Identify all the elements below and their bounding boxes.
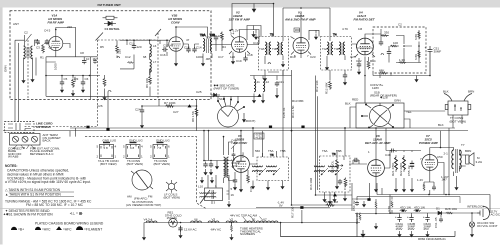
svg-text:C15: C15 — [163, 44, 169, 48]
ground V2 cathode — [231, 58, 235, 64]
svg-text:(FRONT): (FRONT) — [243, 119, 255, 123]
coil arrows T6am — [321, 168, 342, 175]
ground T7 — [454, 184, 458, 190]
resistor R21 — [395, 155, 398, 172]
svg-text:-64V AC: -64V AC — [210, 228, 222, 232]
svg-text:=AVC: =AVC — [42, 227, 51, 231]
volume control dashed box — [337, 150, 344, 183]
svg-text:300: 300 — [295, 28, 300, 32]
svg-text:47: 47 — [170, 44, 174, 48]
svg-text:FM RF AMP: FM RF AMP — [48, 21, 65, 25]
svg-text:FM = 88 MC TO 108 MC. IF =: FM = 88 MC TO 108 MC. IF = 10.7 MC — [26, 203, 84, 207]
resistor R15 — [344, 178, 347, 187]
line cord antenna parts — [8, 123, 31, 130]
svg-text:120: 120 — [230, 55, 235, 59]
svg-text:S1C: S1C — [219, 97, 226, 101]
svg-text:(BOT VIEW): (BOT VIEW) — [127, 162, 144, 166]
svg-text:68: 68 — [143, 55, 147, 59]
svg-text:(BOT VIEW): (BOT VIEW) — [100, 162, 117, 166]
resistor R24b — [375, 201, 377, 208]
filament V5 — [244, 221, 255, 223]
wire long verticals middle — [253, 70, 345, 205]
svg-text:R882 19D416286-01: R882 19D416286-01 — [418, 237, 446, 241]
svg-text:POWER AMP: POWER AMP — [419, 141, 438, 145]
svg-text:GND LUG: GND LUG — [103, 139, 117, 143]
ground L11 — [252, 97, 256, 103]
resistor R1.3K — [399, 61, 406, 63]
ground L10 area b — [210, 177, 214, 183]
capacitor C48 coupling — [390, 149, 395, 153]
svg-text:INTERLOCK: INTERLOCK — [467, 205, 484, 209]
FM tuner unit dashed box — [10, 11, 211, 100]
junction dots bus — [252, 127, 254, 129]
interlock plug — [477, 207, 490, 220]
svg-text:120: 120 — [218, 34, 223, 38]
ground grid box — [362, 201, 366, 207]
svg-text:RED: RED — [352, 98, 359, 102]
transformer T4 FM IF dashed box — [321, 33, 352, 71]
svg-text:V2: V2 — [230, 218, 234, 222]
svg-text:✦✱S1 SHOWN IN FM POSITION: ✦✱S1 SHOWN IN FM POSITION — [3, 213, 53, 217]
ground T3 sec — [281, 61, 285, 67]
wire S1B out — [350, 107, 445, 128]
svg-text:FM RATIO DET: FM RATIO DET — [354, 18, 376, 22]
svg-text:C25: C25 — [196, 90, 202, 94]
square marker fil — [300, 206, 303, 209]
capacitor C3 — [35, 39, 39, 45]
capacitor C62A — [397, 215, 401, 222]
svg-text:0V: 0V — [279, 204, 283, 208]
ground R25 — [229, 234, 233, 240]
svg-text:68K: 68K — [379, 69, 384, 73]
svg-text:(REAR OF WAFER): (REAR OF WAFER) — [370, 94, 397, 98]
AFC triangle marker mid — [333, 193, 337, 196]
capacitor C47 — [353, 158, 359, 162]
wire bus to ant box stubs — [70, 128, 76, 137]
tube V5 — [233, 156, 250, 173]
svg-text:ANT: ANT — [13, 22, 19, 26]
svg-text:T4B: T4B — [334, 47, 340, 51]
svg-text:FM: FM — [148, 195, 153, 199]
svg-text:25V: 25V — [424, 227, 429, 231]
wire T3 T4 grounds — [265, 56, 345, 81]
resistor R18 — [379, 72, 387, 74]
resistor R12 — [329, 81, 332, 90]
svg-text:C27: C27 — [173, 110, 179, 114]
svg-text:FM TUNER UNIT: FM TUNER UNIT — [98, 3, 121, 7]
ground T5am mid — [266, 184, 270, 190]
svg-text:T3A: T3A — [259, 47, 265, 51]
svg-text:4.7K: 4.7K — [342, 27, 348, 31]
switch S2 on-off — [469, 222, 474, 231]
ground mid — [215, 163, 219, 169]
capacitor C62C — [425, 215, 429, 222]
svg-text:C12: C12 — [125, 55, 131, 59]
svg-text:16: 16 — [231, 193, 235, 197]
legend symbols — [11, 226, 83, 230]
LF coils bottom view symbol — [166, 180, 177, 193]
ground T5am right — [280, 183, 284, 189]
ground S1C — [242, 116, 246, 122]
svg-text:C61 .05: C61 .05 — [434, 217, 438, 228]
svg-text:C46: C46 — [343, 184, 347, 190]
svg-text:R16 10M: R16 10M — [309, 177, 313, 190]
svg-text:NOTES:: NOTES: — [5, 164, 17, 168]
svg-text:L7: L7 — [153, 60, 157, 64]
svg-text:T2A: T2A — [200, 33, 206, 37]
resistor R14 — [367, 60, 370, 69]
svg-text:C16: C16 — [160, 53, 166, 57]
ground big left — [360, 230, 365, 238]
scan gray band top — [0, 0, 500, 8]
wire V4 ratio det — [352, 34, 381, 103]
svg-text:R22 220K: R22 220K — [399, 163, 403, 176]
voltage box V3 — [294, 28, 300, 32]
svg-text:T3B: T3B — [272, 47, 278, 51]
svg-text:V3: V3 — [212, 218, 216, 222]
svg-text:GND LUG: GND LUG — [156, 139, 170, 143]
AFC triangle marker — [188, 104, 192, 107]
svg-text:R7 100K: R7 100K — [164, 101, 176, 105]
B+ square marker left — [106, 128, 109, 131]
svg-text:BACK: BACK — [43, 139, 51, 143]
ground T1 right — [30, 76, 34, 82]
svg-text:+: + — [407, 215, 409, 219]
S1B switch box — [356, 103, 404, 128]
capacitor C11 — [132, 44, 136, 50]
filament string wire — [144, 205, 360, 234]
svg-text:C55 .02: C55 .02 — [407, 165, 411, 176]
svg-text:120: 120 — [137, 45, 142, 49]
svg-text:NUMBERS: NUMBERS — [240, 232, 255, 236]
V7 grid cluster wires — [352, 183, 399, 214]
svg-text:AM: AM — [127, 195, 132, 199]
svg-text:a VTVM ±10%,no signal input wi: a VTVM ±10%,no signal input with 115V 60… — [5, 180, 91, 184]
filament V6 — [191, 221, 202, 223]
resistor R19 volume — [336, 158, 339, 170]
coil L6 — [150, 44, 152, 57]
svg-text:T5A: T5A — [268, 149, 274, 153]
gang dashed line C2B — [25, 40, 98, 134]
coil L7 — [150, 60, 152, 73]
svg-text:T6B: T6B — [336, 149, 342, 153]
ground C5 — [60, 87, 64, 93]
transformer T3 FM IF dashed box — [259, 33, 289, 71]
svg-text:R13 68K: R13 68K — [292, 99, 304, 103]
ground R21 — [394, 186, 398, 192]
svg-text:2-1: 2-1 — [444, 152, 449, 156]
connector T6b — [153, 143, 167, 159]
wire B+ top feed — [232, 4, 330, 43]
svg-text:C4 5: C4 5 — [44, 29, 51, 33]
transformer T6 AM IF dashed box — [314, 152, 350, 192]
resistor R7 100K — [165, 105, 174, 108]
svg-text:R16 2.2M: R16 2.2M — [325, 200, 339, 204]
svg-text:C50: C50 — [437, 155, 443, 159]
connector T6a — [126, 143, 140, 159]
ground R5 — [102, 94, 106, 100]
rotary switch S1A — [131, 170, 153, 190]
wire R5 — [104, 75, 106, 94]
svg-text:C19: C19 — [253, 41, 259, 45]
ground V5 — [239, 186, 243, 192]
wire V1B grid line — [120, 40, 169, 75]
svg-text:V4 3-4: V4 3-4 — [144, 218, 153, 222]
svg-text:6.8K: 6.8K — [414, 34, 418, 40]
ground T5am left — [251, 183, 255, 189]
svg-text:C5: C5 — [64, 77, 68, 81]
svg-text:C8: C8 — [80, 51, 84, 55]
resistor R1 — [42, 44, 45, 53]
printed board dashed outline — [85, 137, 206, 209]
svg-text:47Ω 1W: 47Ω 1W — [414, 206, 425, 210]
svg-text:220: 220 — [118, 49, 122, 54]
svg-text:R28 10Ω: R28 10Ω — [445, 207, 458, 211]
svg-text:4.7K: 4.7K — [387, 206, 391, 212]
capacitor C8 — [82, 59, 86, 65]
ground C42 — [209, 169, 213, 175]
svg-text:L10: L10 — [198, 185, 203, 189]
capacitor C45 — [338, 179, 342, 185]
svg-text:R14 1.5K: R14 1.5K — [291, 105, 295, 118]
capacitor C30 — [233, 178, 237, 184]
wire B- return rail — [281, 214, 456, 238]
transformer T2 osc coil — [200, 33, 215, 53]
trimmer C40 — [232, 152, 236, 157]
resistor R28 — [446, 212, 453, 214]
svg-text:560: 560 — [255, 149, 260, 153]
svg-text:1M: 1M — [93, 57, 98, 61]
ground V6 cath — [374, 186, 378, 192]
ground T2 — [201, 60, 205, 66]
ground C20 — [343, 79, 347, 85]
svg-text:BRN: BRN — [468, 90, 474, 94]
filament V2 — [226, 221, 237, 223]
diode AFC — [211, 93, 220, 97]
svg-text:▲ TAKEN WITH S1 IN FM POSITIO: ▲ TAKEN WITH S1 IN FM POSITION — [5, 193, 61, 197]
svg-text:R14: R14 — [370, 59, 376, 63]
svg-text:L11: L11 — [255, 80, 260, 84]
ground T3 — [263, 75, 267, 81]
capacitor C41 — [203, 162, 207, 168]
capacitor C18 — [243, 56, 247, 62]
svg-text:C2: C2 — [24, 31, 28, 35]
ground afc — [414, 76, 418, 82]
svg-text:T4: T4 — [333, 33, 337, 37]
svg-text:12.6V AC: 12.6V AC — [184, 228, 198, 232]
B+ square markers on bus — [269, 126, 272, 129]
tube V2 — [232, 37, 248, 53]
svg-text:C23: C23 — [310, 55, 316, 59]
AVC triangle marker — [258, 94, 262, 97]
svg-text:C3: C3 — [36, 46, 40, 50]
wire V5 input — [224, 131, 258, 186]
line cord antenna dashed box — [5, 122, 35, 133]
loop antenna coil L4 — [224, 157, 229, 178]
svg-text:V1: V1 — [252, 218, 256, 222]
ground C62C — [425, 231, 429, 237]
ground R3 — [71, 90, 75, 96]
svg-text:AC-DC: AC-DC — [491, 213, 500, 217]
rotary switch S1C — [218, 99, 245, 127]
svg-text:R6 10K: R6 10K — [145, 78, 149, 88]
capacitor C16 — [214, 35, 218, 41]
svg-text:BETWEEN B & C: BETWEEN B & C — [30, 152, 54, 156]
svg-text:330: 330 — [384, 31, 389, 35]
svg-text:WI A&B: WI A&B — [8, 155, 18, 159]
speaker M — [466, 153, 474, 166]
svg-text:R4: R4 — [222, 45, 226, 49]
svg-text:10: 10 — [86, 57, 90, 61]
svg-text:-4.3V: -4.3V — [255, 135, 262, 139]
svg-text:1000: 1000 — [54, 63, 58, 70]
svg-text:C24: C24 — [135, 108, 141, 112]
voltage box V5 — [254, 133, 264, 139]
B+ arrow marker top — [252, 4, 256, 13]
wire S1C stems — [218, 96, 238, 102]
svg-text:T5: T5 — [270, 153, 274, 157]
wire V7 cathode screen — [424, 163, 444, 195]
svg-text:C38: C38 — [249, 186, 253, 192]
svg-text:C1 DETAIL: C1 DETAIL — [105, 27, 120, 31]
svg-text:128V: 128V — [372, 86, 379, 90]
svg-text:C26: C26 — [97, 104, 103, 108]
svg-text:(BOT VIEW): (BOT VIEW) — [154, 162, 171, 166]
resistor R24 — [423, 184, 425, 191]
svg-text:R12 68K: R12 68K — [325, 82, 329, 94]
svg-text:47: 47 — [186, 38, 190, 42]
capacitor C51 — [428, 46, 433, 76]
AFC network dashed box — [373, 27, 426, 73]
junction dots am ant — [203, 130, 212, 162]
svg-text:⊲⊥ = ▦-: ⊲⊥ = ▦- — [70, 212, 84, 216]
ground C60 — [178, 232, 182, 238]
transformer T3 AM IF dashed box — [252, 153, 288, 181]
power rail wire — [390, 195, 477, 222]
capacitor C14 — [192, 47, 196, 53]
svg-text:=B+: =B+ — [18, 227, 24, 231]
ground C22 — [357, 69, 361, 75]
svg-text:T5B: T5B — [280, 149, 286, 153]
svg-text:ANTENNA: ANTENNA — [36, 125, 51, 129]
capacitor C4 — [45, 39, 49, 45]
svg-text:1M: 1M — [358, 27, 363, 31]
ground C24 — [140, 122, 144, 128]
resistor R6.8K bot — [418, 50, 421, 58]
black square marker power a — [402, 210, 405, 212]
tube V1B — [169, 37, 183, 51]
resistor R10 — [221, 32, 224, 41]
coil L12 — [263, 79, 265, 92]
transformer T7 output — [451, 148, 466, 185]
ground T1 left — [21, 77, 25, 83]
ground R22 — [402, 186, 406, 192]
svg-text:10K: 10K — [206, 36, 211, 40]
scan fold line — [0, 208, 500, 210]
resistor R23 — [359, 213, 361, 220]
capacitor C24 — [140, 108, 144, 114]
svg-text:C19: C19 — [236, 59, 242, 63]
svg-text:YEL: YEL — [406, 110, 412, 114]
svg-text:47Ω 1W: 47Ω 1W — [400, 206, 411, 210]
svg-text:R12 33K: R12 33K — [315, 80, 319, 92]
ground C21 — [275, 92, 279, 98]
svg-text:T4A: T4A — [322, 47, 328, 51]
resistor R2 — [127, 62, 134, 64]
svg-text:=AFC: =AFC — [63, 227, 72, 231]
junction dots misc — [45, 3, 473, 224]
capacitor C15 — [162, 47, 168, 51]
svg-text:C14: C14 — [196, 46, 202, 50]
svg-text:C2: C2 — [398, 23, 402, 27]
svg-text:L6: L6 — [153, 44, 157, 48]
resistor R25b — [391, 200, 393, 207]
wire conv B+ — [373, 73, 430, 76]
C1 detail diode symbol — [104, 21, 116, 25]
ground L10 area a — [200, 177, 204, 183]
svg-text:R3: R3 — [75, 77, 79, 81]
resistor R100 — [390, 45, 397, 47]
capacitor C310 — [387, 50, 391, 56]
wire V3 pin stubs — [229, 36, 375, 59]
capacitor C26 — [379, 40, 383, 46]
svg-text:R8 1.5K: R8 1.5K — [191, 111, 195, 122]
svg-text:PLATED CHASSIS BOARD WIRING LE: PLATED CHASSIS BOARD WIRING LEGEND — [35, 222, 104, 226]
trimmer arrow C2A — [26, 34, 32, 42]
svg-text:5 8: 5 8 — [104, 146, 109, 150]
svg-text:D1: D1 — [436, 207, 440, 211]
C1 detail resistor symbol — [103, 16, 118, 19]
ground T6am a — [322, 196, 326, 202]
svg-text:220: 220 — [67, 25, 72, 29]
capacitor C58 — [432, 185, 436, 190]
wire TT conn stubs — [453, 115, 462, 128]
svg-text:BRN: BRN — [465, 149, 471, 153]
ground volume — [335, 183, 339, 189]
svg-text:C18: C18 — [247, 53, 253, 57]
tube V1A — [49, 36, 63, 50]
resistor R27 47ohm — [414, 209, 421, 211]
ground V1B cathode — [174, 60, 178, 66]
svg-text:C17: C17 — [218, 55, 224, 59]
resistor R4b mid — [116, 45, 119, 54]
capacitor C22 — [357, 62, 361, 68]
tube V6 — [368, 160, 385, 177]
svg-text:(BOT VIEW): (BOT VIEW) — [450, 119, 467, 123]
lamp RE1 — [169, 219, 178, 228]
diode D1 — [438, 211, 442, 215]
svg-text:GND LUG: GND LUG — [129, 139, 143, 143]
svg-text:(PART OF TUNER): (PART OF TUNER) — [214, 87, 240, 91]
capacitor C21 — [275, 81, 279, 87]
svg-text:R13: R13 — [290, 55, 296, 59]
svg-text:L12: L12 — [264, 80, 269, 84]
svg-text:R23 10K: R23 10K — [355, 212, 359, 224]
filament V3 — [208, 221, 219, 223]
svg-text:BLK: BLK — [438, 123, 444, 127]
ground L12 — [261, 97, 265, 103]
transformer T1 — [24, 46, 33, 59]
capacitor C6 — [81, 80, 85, 86]
svg-text:ON VOL CONT: ON VOL CONT — [477, 224, 498, 228]
tuning gang dashed link line — [98, 39, 159, 41]
capacitor C20 — [343, 73, 347, 79]
gang leader lines — [14, 145, 35, 149]
notes block — [3, 164, 104, 226]
ground C55 — [410, 186, 414, 192]
misc tiny value labels — [13, 22, 444, 192]
ground R16 vert — [328, 198, 332, 204]
